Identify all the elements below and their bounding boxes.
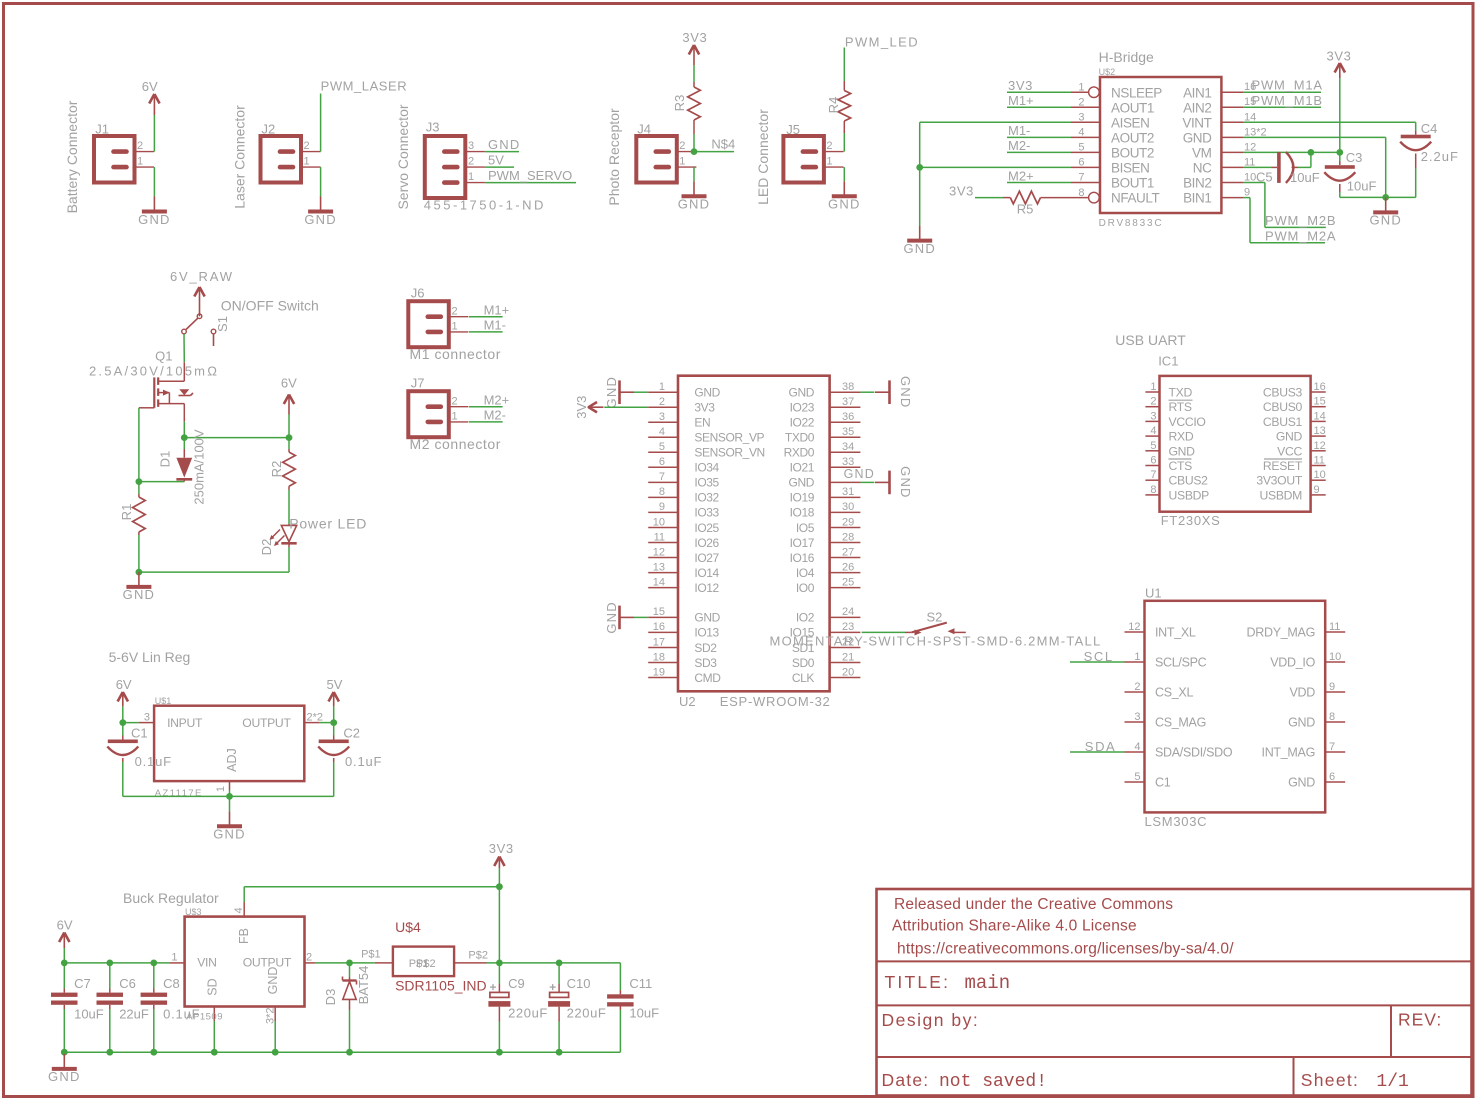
microcontroller U2 ESP-WROOM-32 box bbox=[678, 376, 830, 692]
svg-text:SENSOR_VN: SENSOR_VN bbox=[694, 446, 764, 460]
svg-text:NFAULT: NFAULT bbox=[1111, 191, 1160, 206]
junction 6V R2 bbox=[286, 434, 293, 441]
wire AISEN to BISEN bbox=[920, 121, 1071, 123]
svg-text:24: 24 bbox=[842, 606, 854, 618]
svg-text:4: 4 bbox=[659, 426, 665, 438]
svg-text:16: 16 bbox=[653, 621, 665, 633]
U2 right pin 30 IO18 bbox=[830, 511, 861, 513]
wire junction to input bbox=[123, 722, 139, 724]
svg-text:IO27: IO27 bbox=[694, 551, 719, 565]
svg-text:CBUS0: CBUS0 bbox=[1263, 400, 1303, 414]
svg-text:PWM_M2B: PWM_M2B bbox=[1265, 213, 1336, 228]
U2 right pin 31 IO19 bbox=[830, 496, 861, 498]
svg-text:USBDM: USBDM bbox=[1259, 488, 1302, 502]
svg-text:GND: GND bbox=[266, 967, 280, 995]
power 5V bbox=[333, 693, 335, 706]
svg-text:IO17: IO17 bbox=[790, 536, 815, 550]
svg-text:DRV8833C: DRV8833C bbox=[1099, 218, 1164, 229]
svg-text:6: 6 bbox=[1150, 455, 1156, 467]
U$1 INPUT pin 3 bbox=[139, 722, 155, 724]
U2 right pin 33 IO21 bbox=[830, 466, 861, 468]
capacitor C7 bbox=[63, 963, 65, 989]
svg-text:M1-: M1- bbox=[484, 318, 506, 333]
svg-text:GND: GND bbox=[789, 476, 815, 490]
U2 left pin 7 IO35 bbox=[648, 481, 678, 483]
ground at U2 pin1 bbox=[620, 391, 635, 393]
svg-text:SD3: SD3 bbox=[694, 656, 717, 670]
svg-text:CBUS3: CBUS3 bbox=[1263, 386, 1303, 400]
wire D2 to gnd rail bbox=[288, 547, 290, 572]
svg-text:9: 9 bbox=[1329, 681, 1335, 693]
U2 right pin 34 RXD0 bbox=[830, 451, 861, 453]
svg-text:0.1uF: 0.1uF bbox=[345, 754, 382, 769]
svg-text:35: 35 bbox=[842, 426, 854, 438]
power 6V_RAW arrow bbox=[199, 288, 201, 316]
wire BISEN bbox=[920, 166, 1071, 168]
U$2 left pin 6 BISEN bbox=[1071, 166, 1100, 168]
svg-text:VINT: VINT bbox=[1182, 115, 1211, 130]
U1 right pin 10 VDD_IO bbox=[1325, 661, 1345, 663]
wire PWM_LED to R4 bbox=[843, 48, 845, 82]
power 3V3 at VM bbox=[1339, 64, 1341, 78]
svg-text:14: 14 bbox=[1314, 410, 1326, 422]
svg-text:6V: 6V bbox=[281, 376, 297, 391]
svg-text:GND: GND bbox=[304, 212, 337, 227]
IC1 left pin 7 CBUS2 bbox=[1145, 479, 1159, 481]
U$3 FB pin 4 bbox=[243, 902, 245, 917]
svg-text:INT_MAG: INT_MAG bbox=[1262, 746, 1315, 760]
svg-text:1: 1 bbox=[468, 171, 474, 183]
resistor R5 bbox=[1003, 197, 1010, 199]
wire R4 to J5 pin2 bbox=[843, 133, 845, 152]
svg-text:4: 4 bbox=[233, 907, 245, 913]
svg-text:U$1: U$1 bbox=[155, 696, 172, 706]
svg-text:3V3OUT: 3V3OUT bbox=[1256, 474, 1302, 488]
svg-text:AOUT2: AOUT2 bbox=[1111, 131, 1154, 146]
svg-text:1: 1 bbox=[137, 156, 143, 168]
U$2 right pin 13*2 GND bbox=[1221, 136, 1243, 138]
U$2 left pin 2 AOUT1 bbox=[1071, 106, 1100, 108]
IC1 right pin 13 GND bbox=[1311, 435, 1326, 437]
svg-text:VDD: VDD bbox=[1290, 686, 1316, 700]
junction R1 gnd bbox=[136, 569, 143, 576]
connector J7 bbox=[408, 391, 449, 437]
svg-text:IO33: IO33 bbox=[694, 506, 719, 520]
svg-text:7: 7 bbox=[1078, 172, 1084, 184]
svg-text:Attribution Share-Alike 4.0 Li: Attribution Share-Alike 4.0 License bbox=[892, 918, 1137, 935]
svg-text:12: 12 bbox=[653, 546, 665, 558]
svg-text:PWM_M1A: PWM_M1A bbox=[1252, 78, 1323, 93]
net M2+ at J7 bbox=[469, 406, 503, 408]
U2 left pin 4 SENSOR_VP bbox=[648, 436, 678, 438]
svg-text:18: 18 bbox=[653, 651, 665, 663]
resistor R1 bbox=[138, 482, 140, 494]
ground under H-bridge caps bbox=[1385, 197, 1387, 212]
svg-text:J1: J1 bbox=[95, 122, 109, 137]
wire gnd rail horizontal bbox=[139, 571, 289, 573]
svg-text:R4: R4 bbox=[826, 97, 841, 114]
svg-text:6: 6 bbox=[1078, 157, 1084, 169]
capacitor C5 bbox=[1272, 166, 1278, 168]
svg-text:IO13: IO13 bbox=[694, 626, 719, 640]
net M1+ bbox=[1007, 106, 1071, 108]
svg-text:GND: GND bbox=[1369, 213, 1402, 228]
junction C8 top bbox=[150, 960, 157, 967]
svg-text:C3: C3 bbox=[1346, 150, 1363, 165]
svg-text:BISEN: BISEN bbox=[1111, 161, 1150, 176]
IC1 left pin 4 RXD bbox=[1145, 435, 1159, 437]
svg-text:AIN1: AIN1 bbox=[1183, 85, 1211, 100]
svg-text:CBUS1: CBUS1 bbox=[1263, 415, 1303, 429]
IC1 right pin 15 CBUS0 bbox=[1311, 406, 1326, 408]
svg-text:10: 10 bbox=[1314, 469, 1326, 481]
U2 left pin 8 IO32 bbox=[648, 496, 678, 498]
svg-text:Design by:: Design by: bbox=[882, 1010, 980, 1030]
U$2 right pin 10 BIN2 bbox=[1221, 182, 1243, 184]
svg-text:IO34: IO34 bbox=[694, 461, 719, 475]
svg-text:IO19: IO19 bbox=[790, 491, 815, 505]
svg-text:GND: GND bbox=[1288, 776, 1315, 790]
wire U2 pin1 to GND bbox=[634, 391, 648, 393]
svg-text:IO5: IO5 bbox=[796, 521, 815, 535]
svg-text:220uF: 220uF bbox=[508, 1006, 548, 1021]
svg-text:IO14: IO14 bbox=[694, 566, 719, 580]
svg-text:M1+: M1+ bbox=[1008, 93, 1034, 108]
svg-text:RESET: RESET bbox=[1263, 459, 1303, 473]
U2 left pin 10 IO25 bbox=[648, 527, 678, 529]
U2 right pin 26 IO4 bbox=[830, 572, 861, 574]
svg-text:CLK: CLK bbox=[792, 671, 815, 685]
svg-text:8: 8 bbox=[659, 486, 665, 498]
svg-text:2: 2 bbox=[452, 395, 458, 407]
svg-text:GND: GND bbox=[213, 827, 246, 842]
svg-text:2: 2 bbox=[452, 305, 458, 317]
junction C1 top bbox=[119, 719, 126, 726]
junction C6 top bbox=[106, 960, 113, 967]
U1 left pin 4 SDA/SDI/SDO bbox=[1125, 751, 1145, 753]
LED D2 bbox=[288, 524, 290, 525]
svg-text:IO35: IO35 bbox=[694, 476, 719, 490]
IC1 left pin 8 USBDP bbox=[1145, 494, 1159, 496]
U1 left pin 2 CS_XL bbox=[1125, 691, 1145, 693]
svg-text:3: 3 bbox=[144, 712, 150, 724]
svg-text:GND: GND bbox=[903, 241, 936, 256]
svg-text:37: 37 bbox=[842, 396, 854, 408]
svg-text:PWM_LED: PWM_LED bbox=[845, 35, 919, 50]
svg-text:19: 19 bbox=[653, 666, 665, 678]
U2 right pin 35 TXD0 bbox=[830, 436, 861, 438]
wire VM net bbox=[1243, 151, 1340, 153]
svg-text:IO2: IO2 bbox=[796, 611, 815, 625]
svg-text:5V: 5V bbox=[327, 677, 343, 692]
svg-text:6: 6 bbox=[1329, 771, 1335, 783]
regulator U$3 AP1509 box bbox=[185, 917, 305, 1007]
U$2 right pin 14 VINT bbox=[1221, 121, 1243, 123]
svg-text:CTS: CTS bbox=[1169, 459, 1193, 473]
svg-text:SD2: SD2 bbox=[694, 641, 717, 655]
U1 right pin 11 DRDY_MAG bbox=[1325, 631, 1345, 633]
svg-text:GND: GND bbox=[828, 197, 861, 212]
IC1 left pin 2 RTS bbox=[1145, 406, 1159, 408]
svg-text:3V3: 3V3 bbox=[489, 841, 514, 856]
wire R3 to J4 pin2 bbox=[693, 134, 695, 152]
U2 right pin 24 IO2 bbox=[830, 616, 861, 618]
wire buck output bus bbox=[487, 962, 621, 964]
svg-text:6V: 6V bbox=[57, 918, 73, 933]
svg-text:GND: GND bbox=[488, 137, 521, 152]
connector J4 bbox=[636, 136, 677, 183]
svg-text:GND: GND bbox=[138, 212, 171, 227]
svg-text:2: 2 bbox=[137, 140, 143, 152]
power 6V at buck bbox=[63, 934, 65, 949]
svg-text:1: 1 bbox=[826, 156, 832, 168]
U2 right pin 27 IO16 bbox=[830, 557, 861, 559]
U2 left pin 9 IO33 bbox=[648, 511, 678, 513]
op-amp U$2 DRV8833C box bbox=[1100, 77, 1221, 213]
junction bottom bus x=64.3 bbox=[61, 1049, 68, 1056]
wire 6V rail horizontal bbox=[184, 437, 289, 439]
wire J2 pin1 to GND bbox=[320, 167, 322, 197]
svg-text:IO23: IO23 bbox=[790, 401, 815, 415]
svg-text:LED Connector: LED Connector bbox=[755, 109, 771, 205]
U2 right pin GND GND bbox=[830, 481, 861, 483]
capacitor C1 bbox=[122, 723, 124, 736]
U2 left pin 14 IO12 bbox=[648, 587, 678, 589]
svg-text:2.2uF: 2.2uF bbox=[1421, 149, 1459, 164]
svg-text:GND: GND bbox=[898, 376, 913, 409]
svg-text:R3: R3 bbox=[672, 95, 687, 112]
wire U2 pin32 to GND bbox=[860, 481, 874, 483]
svg-text:12: 12 bbox=[1128, 621, 1140, 633]
svg-text:NSLEEP: NSLEEP bbox=[1111, 85, 1162, 100]
svg-text:D2: D2 bbox=[259, 539, 274, 556]
net M2- bbox=[1007, 151, 1071, 153]
net 3V3 at NFAULT bbox=[975, 197, 1003, 199]
regulator U$1 AZ1117E box bbox=[154, 706, 304, 781]
svg-text:CS_XL: CS_XL bbox=[1155, 686, 1193, 700]
svg-text:TITLE:: TITLE: bbox=[885, 972, 951, 992]
wire VINT to C4 bbox=[1243, 121, 1416, 123]
ic U1 LSM303C box bbox=[1145, 601, 1326, 813]
U1 left pin 3 CS_MAG bbox=[1125, 721, 1145, 723]
svg-text:30: 30 bbox=[842, 501, 854, 513]
wire GND pin13 to gnd rail bbox=[1243, 136, 1386, 138]
svg-text:13*2: 13*2 bbox=[1244, 126, 1267, 138]
U2 right pin 28 IO17 bbox=[830, 542, 861, 544]
ground lin reg bbox=[229, 811, 231, 826]
junction bottom bus x=559.1 bbox=[556, 1049, 563, 1056]
svg-text:PWM_SERVO: PWM_SERVO bbox=[488, 168, 572, 183]
svg-text:GND: GND bbox=[844, 467, 875, 481]
svg-text:10: 10 bbox=[653, 516, 665, 528]
svg-text:BIN2: BIN2 bbox=[1183, 176, 1211, 191]
svg-text:Q1: Q1 bbox=[155, 349, 172, 364]
U2 left pin 18 SD3 bbox=[648, 662, 678, 664]
svg-text:8: 8 bbox=[1150, 484, 1156, 496]
diode D1 bbox=[183, 438, 185, 449]
wire 6V arrow to junction bbox=[288, 415, 290, 438]
capacitor C2 bbox=[333, 723, 335, 736]
svg-text:PWM_M2A: PWM_M2A bbox=[1265, 229, 1336, 244]
svg-text:34: 34 bbox=[842, 441, 854, 453]
svg-text:GND: GND bbox=[789, 386, 815, 400]
svg-text:NC: NC bbox=[1193, 161, 1212, 176]
wire 6V down to bus bbox=[63, 948, 65, 963]
svg-text:1/1: 1/1 bbox=[1376, 1072, 1408, 1092]
svg-text:GND: GND bbox=[1288, 716, 1315, 730]
svg-text:Laser Connector: Laser Connector bbox=[232, 105, 248, 209]
svg-text:IO16: IO16 bbox=[790, 551, 815, 565]
svg-text:6: 6 bbox=[659, 456, 665, 468]
svg-text:2: 2 bbox=[1150, 396, 1156, 408]
wire gnd rail under C3 C4 bbox=[1340, 196, 1416, 198]
wire PWM_LASER bbox=[320, 94, 322, 152]
svg-text:C6: C6 bbox=[119, 976, 136, 991]
svg-text:RXD0: RXD0 bbox=[784, 446, 815, 460]
wire buck top bus bbox=[64, 962, 169, 964]
U$2 right pin 12 VM bbox=[1221, 151, 1243, 153]
wire NC to C5 bbox=[1243, 166, 1272, 168]
svg-text:MOMENTARY-SWITCH-SPST-SMD-6.2M: MOMENTARY-SWITCH-SPST-SMD-6.2MM-TALL bbox=[770, 634, 1102, 649]
U2 right pin 37 IO23 bbox=[830, 406, 861, 408]
power 6V at lin reg bbox=[122, 693, 124, 706]
U$2 right pin 15 AIN2 bbox=[1221, 106, 1243, 108]
IC1 right pin 12 VCC bbox=[1311, 450, 1326, 452]
svg-text:C4: C4 bbox=[1421, 121, 1438, 136]
junction bottom bus x=499.4 bbox=[496, 1049, 503, 1056]
wire 6V to input bbox=[122, 706, 124, 722]
svg-text:FB: FB bbox=[237, 928, 251, 944]
svg-text:P$1: P$1 bbox=[361, 949, 381, 961]
ground under J4 bbox=[693, 181, 695, 196]
svg-text:VCC: VCC bbox=[1277, 444, 1302, 458]
power 6V bbox=[153, 95, 155, 115]
svg-text:Servo Connector: Servo Connector bbox=[395, 104, 411, 209]
net M1- bbox=[1007, 136, 1071, 138]
svg-text:10uF: 10uF bbox=[1347, 178, 1377, 193]
svg-text:9: 9 bbox=[659, 501, 665, 513]
svg-text:M2+: M2+ bbox=[484, 392, 510, 407]
svg-text:M1+: M1+ bbox=[484, 302, 510, 317]
svg-text:11: 11 bbox=[1314, 455, 1325, 467]
U2 right pin 36 IO22 bbox=[830, 421, 861, 423]
svg-text:USB UART: USB UART bbox=[1115, 332, 1186, 348]
IC1 left pin 6 CTS bbox=[1145, 465, 1159, 467]
svg-text:CBUS2: CBUS2 bbox=[1169, 474, 1209, 488]
svg-text:GND: GND bbox=[694, 386, 720, 400]
svg-text:Date:: Date: bbox=[882, 1070, 930, 1090]
svg-text:C9: C9 bbox=[508, 976, 525, 991]
svg-text:USBDP: USBDP bbox=[1169, 488, 1210, 502]
svg-text:DRDY_MAG: DRDY_MAG bbox=[1247, 626, 1315, 640]
U$1 ADJ pin 1 bbox=[229, 781, 231, 790]
IC1 right pin 9 USBDM bbox=[1311, 494, 1326, 496]
svg-text:SCL/SPC: SCL/SPC bbox=[1155, 656, 1207, 670]
svg-text:not saved!: not saved! bbox=[939, 1072, 1047, 1092]
junction gnd rail bbox=[1382, 194, 1389, 201]
svg-text:2: 2 bbox=[679, 140, 685, 152]
wire U2 pin15 to GND bbox=[634, 616, 648, 618]
svg-text:4: 4 bbox=[1134, 741, 1140, 753]
svg-text:SDA: SDA bbox=[1085, 739, 1117, 754]
net PWM_M1A bbox=[1243, 91, 1321, 93]
IC1 left pin 1 TXD bbox=[1145, 391, 1159, 393]
svg-text:1: 1 bbox=[679, 156, 685, 168]
resistor R4 bbox=[843, 81, 845, 91]
svg-text:2: 2 bbox=[306, 951, 312, 963]
svg-text:29: 29 bbox=[842, 516, 854, 528]
IC1 right pin 14 CBUS1 bbox=[1311, 420, 1326, 422]
U2 left pin 17 SD2 bbox=[648, 647, 678, 649]
svg-text:D1: D1 bbox=[158, 451, 173, 468]
net PWM_M1B bbox=[1243, 106, 1321, 108]
U2 right pin 21 SD0 bbox=[830, 662, 861, 664]
svg-text:U$3: U$3 bbox=[185, 907, 202, 917]
net M2+ bbox=[1007, 182, 1071, 184]
svg-text:J3: J3 bbox=[426, 120, 440, 135]
svg-text:6V: 6V bbox=[116, 677, 132, 692]
U1 right pin 6 GND bbox=[1325, 781, 1345, 783]
svg-text:12: 12 bbox=[1314, 440, 1326, 452]
U2 right pin 23 IO15 bbox=[830, 631, 861, 633]
U$3 SD pin bbox=[213, 1007, 215, 1022]
diode D3 BAT54 bbox=[349, 963, 351, 977]
svg-text:GND: GND bbox=[694, 611, 720, 625]
svg-text:M2-: M2- bbox=[484, 408, 506, 423]
svg-text:6V: 6V bbox=[142, 79, 158, 94]
svg-text:7: 7 bbox=[659, 471, 665, 483]
svg-text:2: 2 bbox=[826, 140, 832, 152]
svg-text:3V3: 3V3 bbox=[1327, 49, 1352, 64]
svg-text:2: 2 bbox=[468, 156, 474, 168]
svg-text:U$4: U$4 bbox=[395, 919, 421, 935]
svg-text:J4: J4 bbox=[637, 122, 651, 137]
svg-text:10uF: 10uF bbox=[629, 1006, 659, 1021]
IC1 right pin 16 CBUS3 bbox=[1311, 391, 1326, 393]
svg-text:H-Bridge: H-Bridge bbox=[1099, 49, 1154, 65]
U$2 left pin 1 NSLEEP bbox=[1071, 91, 1088, 93]
svg-text:VCCIO: VCCIO bbox=[1169, 415, 1206, 429]
svg-text:C2: C2 bbox=[343, 726, 360, 741]
svg-text:ESP-WROOM-32: ESP-WROOM-32 bbox=[720, 694, 831, 709]
svg-text:ADJ: ADJ bbox=[225, 748, 239, 772]
svg-text:GND: GND bbox=[1183, 131, 1212, 146]
U2 right pin 22 SD1 bbox=[830, 647, 861, 649]
svg-text:15: 15 bbox=[1314, 396, 1326, 408]
svg-text:9: 9 bbox=[1244, 187, 1250, 199]
svg-text:Buck Regulator: Buck Regulator bbox=[123, 890, 219, 906]
U2 left pin 16 IO13 bbox=[648, 631, 678, 633]
svg-text:23: 23 bbox=[842, 621, 854, 633]
U2 right pin 38 GND bbox=[830, 391, 861, 393]
U$2 right pin 16 AIN1 bbox=[1221, 91, 1243, 93]
svg-text:IO21: IO21 bbox=[790, 461, 815, 475]
wire Q1 source to 6V junction bbox=[183, 422, 185, 438]
svg-text:BIN1: BIN1 bbox=[1183, 191, 1211, 206]
svg-text:1: 1 bbox=[1078, 81, 1084, 93]
U2 left pin 12 IO27 bbox=[648, 557, 678, 559]
U1 right pin 8 GND bbox=[1325, 721, 1345, 723]
ground buck bbox=[63, 1054, 65, 1069]
svg-text:CMD: CMD bbox=[694, 671, 721, 685]
svg-text:38: 38 bbox=[842, 381, 854, 393]
U$2 left pin 7 BOUT1 bbox=[1071, 182, 1100, 184]
wire 5V to output junction bbox=[333, 706, 335, 722]
svg-text:2: 2 bbox=[659, 396, 665, 408]
svg-text:BOUT1: BOUT1 bbox=[1111, 176, 1154, 191]
ground under J2 bbox=[320, 197, 322, 212]
svg-text:28: 28 bbox=[842, 531, 854, 543]
